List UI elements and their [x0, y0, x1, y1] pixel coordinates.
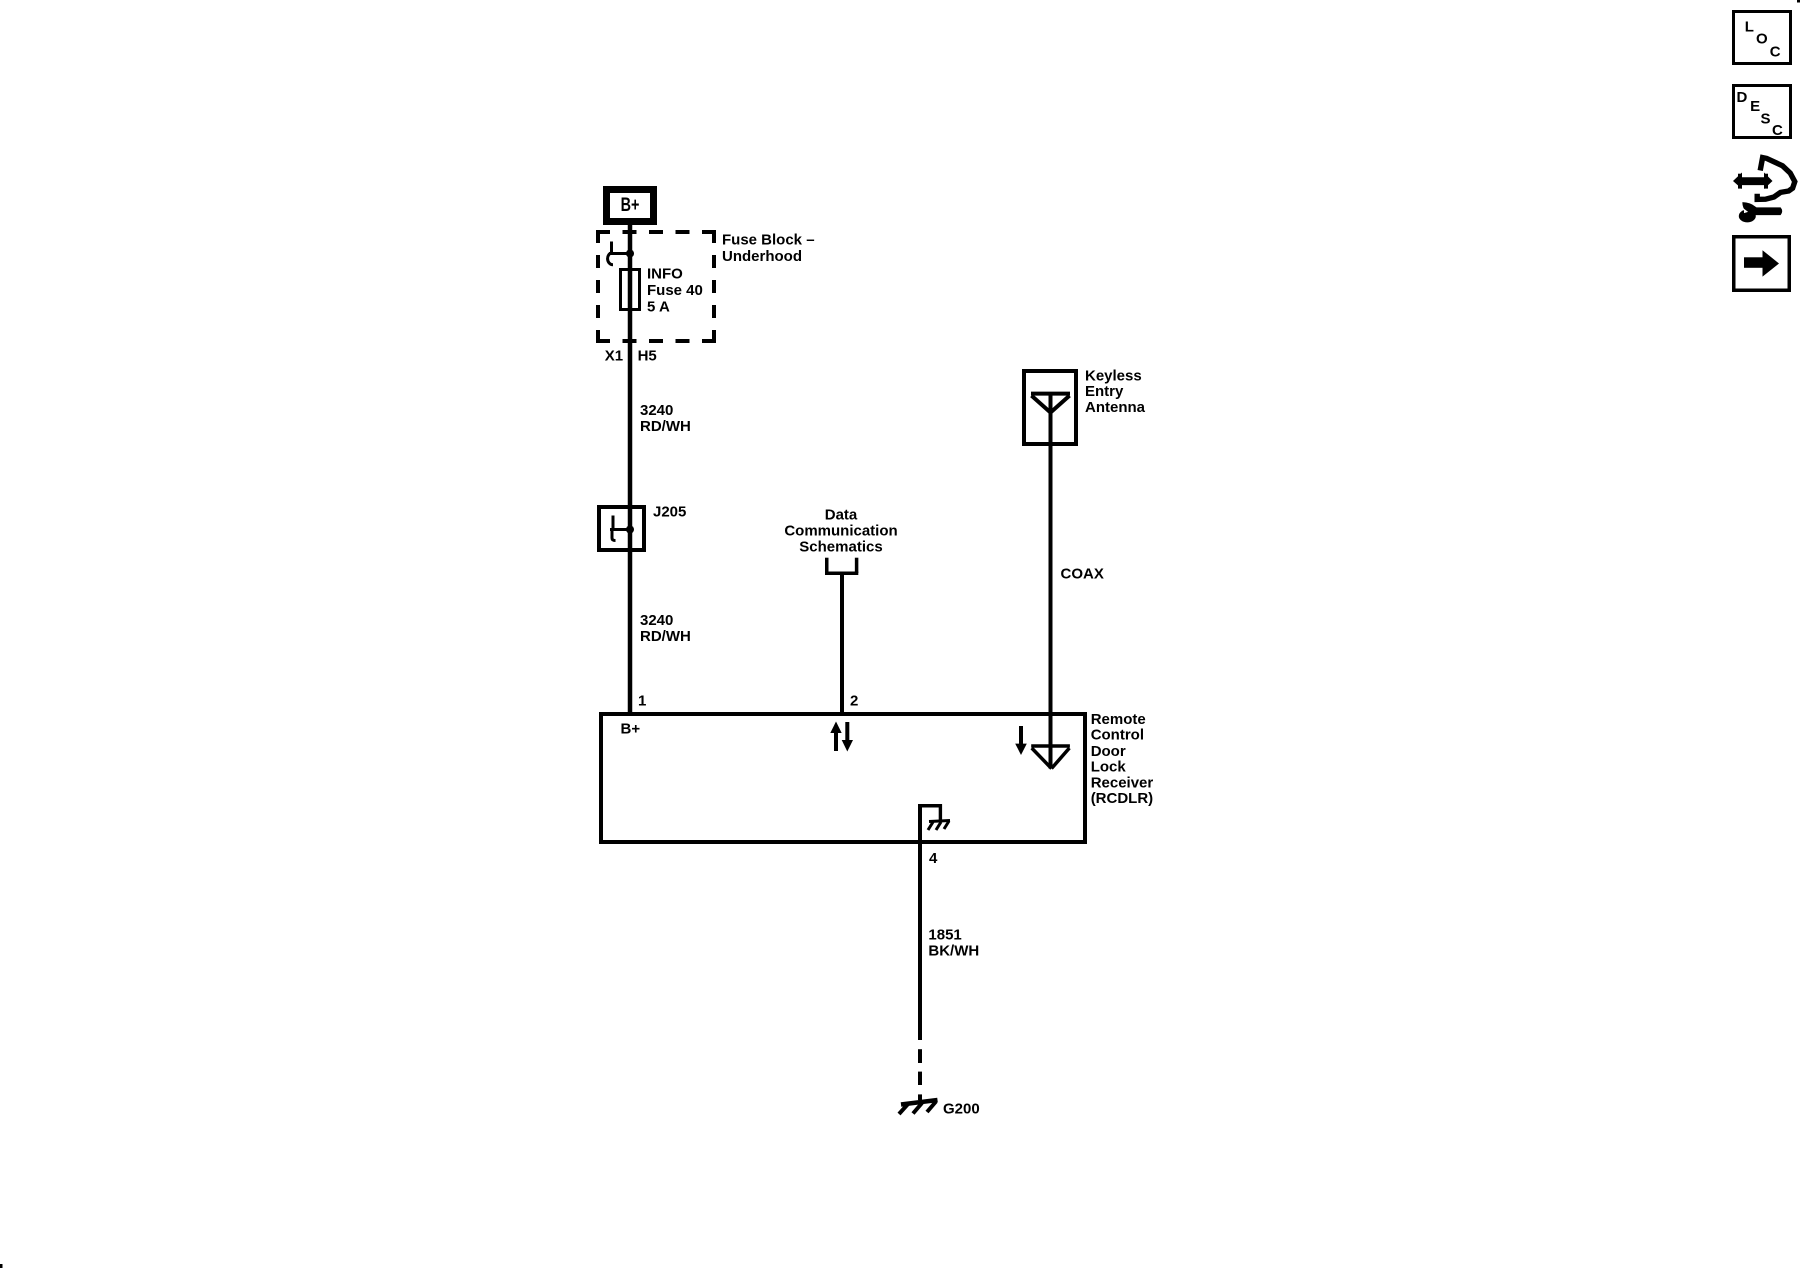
svg-text:L: L [1745, 18, 1754, 35]
svg-text:O: O [1756, 30, 1768, 47]
svg-text:INFO: INFO [647, 266, 683, 283]
svg-text:Data: Data [825, 507, 858, 524]
svg-text:Receiver: Receiver [1091, 774, 1154, 791]
svg-text:RD/WH: RD/WH [640, 628, 691, 645]
svg-text:Underhood: Underhood [722, 248, 802, 265]
svg-text:Antenna: Antenna [1085, 399, 1146, 416]
svg-text:Lock: Lock [1091, 758, 1127, 775]
svg-text:(RCDLR): (RCDLR) [1091, 790, 1153, 807]
svg-text:E: E [1750, 98, 1760, 115]
svg-text:Communication: Communication [784, 522, 897, 539]
svg-text:2: 2 [850, 693, 858, 710]
svg-text:H5: H5 [638, 348, 657, 365]
svg-text:Entry: Entry [1085, 383, 1124, 400]
svg-text:1851: 1851 [928, 927, 961, 944]
svg-text:Fuse Block –: Fuse Block – [722, 232, 815, 249]
svg-text:Control: Control [1091, 727, 1144, 744]
svg-text:S: S [1761, 111, 1771, 128]
svg-text:Fuse 40: Fuse 40 [647, 282, 703, 299]
svg-text:D: D [1737, 89, 1748, 106]
svg-text:C: C [1772, 122, 1783, 139]
svg-text:3240: 3240 [640, 402, 673, 419]
svg-text:RD/WH: RD/WH [640, 418, 691, 435]
svg-text:G200: G200 [943, 1101, 980, 1118]
svg-text:B+: B+ [621, 195, 640, 216]
svg-text:X1: X1 [605, 348, 623, 365]
svg-text:1: 1 [638, 693, 646, 710]
svg-text:COAX: COAX [1061, 566, 1104, 583]
svg-text:5 A: 5 A [647, 299, 670, 316]
svg-text:4: 4 [929, 850, 938, 867]
svg-text:BK/WH: BK/WH [928, 942, 979, 959]
svg-text:B+: B+ [621, 721, 641, 738]
svg-text:3240: 3240 [640, 612, 673, 629]
svg-text:Schematics: Schematics [799, 538, 882, 555]
svg-text:C: C [1770, 43, 1781, 60]
svg-text:J205: J205 [653, 503, 686, 520]
svg-text:Keyless: Keyless [1085, 367, 1142, 384]
